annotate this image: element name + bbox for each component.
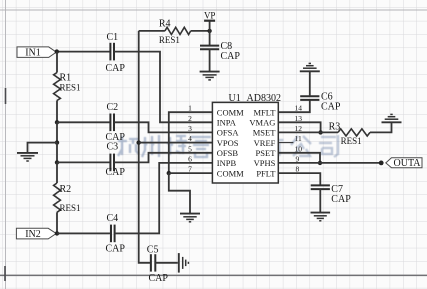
wire C8 to ground G2: [209, 49, 211, 71]
svg-text:CAP: CAP: [331, 194, 351, 205]
svg-text:RES1: RES1: [341, 136, 362, 146]
svg-text:CAP: CAP: [106, 63, 126, 74]
svg-text:VPHS: VPHS: [254, 158, 276, 168]
node OUTA terminal dot: [379, 161, 384, 166]
node VP junction: [207, 29, 211, 33]
capacitor C6: [300, 92, 341, 113]
wire C1 to INPA pin 2: [114, 52, 212, 123]
capacitor C2: [106, 102, 126, 143]
resistor R3: [329, 122, 370, 147]
node COMM junction: [167, 171, 171, 175]
svg-text:C2: C2: [107, 102, 119, 113]
wire C3 node down to R2: [56, 162, 58, 183]
pin 6 stub: [193, 162, 212, 164]
capacitor C4: [106, 213, 126, 255]
wire VP node down to C8: [209, 31, 211, 46]
wire C3 to OFSB pin 5: [114, 153, 212, 163]
wire pin 13 VMAG to MSET: [278, 122, 320, 132]
svg-text:C3: C3: [107, 141, 119, 152]
svg-text:IN1: IN1: [25, 48, 41, 59]
wire pin 14 MFLT to C6: [278, 100, 310, 112]
svg-text:C1: C1: [107, 32, 119, 43]
svg-text:MSET: MSET: [253, 128, 276, 138]
ground G2: [200, 72, 220, 80]
resistor R4: [159, 18, 191, 45]
node C3 junction: [55, 160, 59, 164]
svg-text:CAP: CAP: [106, 167, 126, 178]
pin 4 stub: [193, 142, 212, 144]
wire pin 10 PSET down to VPHS: [278, 153, 320, 163]
svg-text:VREF: VREF: [254, 138, 276, 148]
svg-text:R4: R4: [159, 18, 171, 29]
svg-text:RES1: RES1: [60, 83, 81, 93]
capacitor C5: [147, 245, 169, 285]
op-amp U1 AD8302 IC body: [212, 93, 281, 183]
node C2 junction: [55, 120, 59, 124]
ground G1: [17, 153, 38, 161]
svg-text:VMAG: VMAG: [249, 118, 275, 128]
port OUTA: [386, 158, 422, 169]
node IN1 junction: [55, 49, 59, 53]
svg-text:COMM: COMM: [217, 107, 244, 117]
svg-text:CAP: CAP: [106, 243, 126, 254]
svg-text:CAP: CAP: [149, 273, 169, 284]
svg-text:CAP: CAP: [321, 101, 341, 112]
resistor R2: [54, 183, 81, 213]
sheet border bottom: [0, 274, 427, 276]
port IN1: [17, 47, 56, 59]
pin numbers right: [295, 104, 303, 174]
wire R4 left: [139, 30, 165, 32]
wire rail to VPOS pin 4: [139, 142, 213, 144]
wire C2 node down to ground tap: [56, 122, 58, 142]
border dark dash upper-left: [5, 88, 7, 104]
wire pin 12 MSET to R3: [278, 131, 338, 133]
svg-text:IN2: IN2: [25, 229, 41, 240]
wire C2 to OFSA pin 3: [114, 122, 212, 132]
pin numbers left: [188, 104, 192, 174]
svg-text:PSET: PSET: [256, 148, 277, 158]
wire IN1 down to R1: [56, 52, 58, 73]
svg-text:INPA: INPA: [217, 118, 237, 128]
svg-text:3: 3: [188, 124, 192, 133]
svg-text:11: 11: [295, 134, 302, 143]
wire R2 to IN2 node: [56, 212, 58, 233]
capacitor C7: [311, 184, 351, 205]
ground G7: [311, 213, 331, 221]
wire IN2 to C4: [57, 232, 111, 234]
node IN2 junction: [55, 231, 59, 235]
wire COMM node to ground G5: [169, 173, 190, 214]
svg-text:VP: VP: [204, 10, 216, 20]
sheet border top: [0, 9, 427, 11]
svg-text:RES1: RES1: [60, 203, 81, 213]
wire C6 up to ground G3: [309, 71, 311, 96]
wire node to pin 7: [169, 172, 213, 174]
svg-text:OFSA: OFSA: [217, 128, 240, 138]
wire IN1 to C1: [57, 51, 111, 53]
pin 3 stub: [193, 131, 212, 133]
pin 9 stub: [278, 162, 293, 164]
ground G6 sideways: [179, 253, 189, 273]
svg-text:AD8302: AD8302: [247, 93, 281, 104]
pin 12 stub: [278, 131, 293, 133]
ground G5: [180, 214, 200, 222]
capacitor C1: [106, 32, 126, 74]
svg-text:C5: C5: [147, 245, 159, 256]
wire C5 to ground G6: [155, 262, 178, 264]
node VPHS junction: [318, 161, 322, 165]
svg-text:5: 5: [188, 144, 192, 153]
wire C7 to ground G7: [319, 189, 321, 213]
svg-text:CAP: CAP: [221, 51, 241, 62]
pin 5 stub: [193, 152, 212, 154]
pin 11 stub: [278, 142, 293, 144]
capacitor C3: [106, 141, 126, 177]
pin 1 stub: [193, 111, 212, 113]
sheet border left: [5, 0, 7, 289]
svg-text:C4: C4: [107, 213, 119, 224]
svg-text:INPB: INPB: [217, 158, 237, 168]
svg-text:U1: U1: [229, 93, 241, 104]
wire node to C2: [57, 121, 111, 123]
wire pin 8 PFLT to C7: [278, 173, 320, 185]
svg-text:PFLT: PFLT: [256, 168, 276, 178]
pin 8 stub: [278, 172, 293, 174]
svg-text:4: 4: [188, 134, 192, 143]
node VPOS junction: [137, 140, 141, 144]
svg-text:MFLT: MFLT: [254, 107, 277, 117]
wire R4 right to VP node: [191, 30, 210, 32]
svg-text:OFSB: OFSB: [217, 148, 239, 158]
wire to ground G1: [28, 143, 58, 153]
svg-text:R2: R2: [60, 184, 72, 195]
ground G3 inverted: [300, 63, 320, 71]
border dark dash lower-left: [4, 266, 6, 281]
pin 7 stub: [193, 172, 212, 174]
node ground tap junction: [55, 140, 59, 144]
wire tap node down to C3 node: [56, 143, 58, 163]
resistor R1: [54, 73, 81, 101]
pin 10 stub: [278, 152, 293, 154]
node MSET junction: [318, 130, 322, 134]
pin 14 stub: [278, 111, 293, 113]
wire pin 9 VPHS to OUTA: [278, 162, 381, 164]
wire C4 to INPB pin 6: [115, 163, 213, 234]
svg-text:COMM: COMM: [217, 168, 244, 178]
svg-text:2: 2: [188, 114, 192, 123]
wire R3 to ground G4: [370, 122, 392, 132]
wire pin 1 COMM down to pin 7: [169, 112, 213, 173]
wire node to C3: [57, 161, 111, 163]
wire VP rail from R4 corner down to C5: [139, 31, 151, 263]
power VP: [204, 10, 216, 31]
pin 2 stub: [193, 121, 212, 123]
pin 13 stub: [278, 121, 293, 123]
capacitor C8: [200, 41, 240, 62]
svg-text:6: 6: [188, 154, 192, 163]
svg-text:R3: R3: [329, 122, 341, 133]
svg-text:OUTA: OUTA: [394, 158, 422, 169]
port IN2: [16, 228, 56, 240]
wire R1 to C2 node: [56, 101, 58, 123]
ground G4 inverted: [382, 114, 402, 122]
svg-text:VPOS: VPOS: [217, 138, 239, 148]
svg-text:RES1: RES1: [159, 35, 180, 45]
